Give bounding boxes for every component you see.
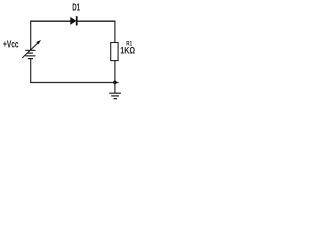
wire: battery - terminal down to bottom-left corner: [30, 59, 32, 83]
battery V1 (variable source): [25, 50, 35, 58]
svg-text:D1: D1: [72, 3, 80, 14]
wire: top rail, +Vcc corner to diode anode: [30, 20, 71, 22]
wire: top-right corner down to resistor pin 1: [114, 21, 116, 43]
diode D1: [70, 16, 77, 25]
junction node: [113, 81, 117, 85]
wire: left vertical, top corner to battery + terminal: [30, 21, 32, 51]
ground: [109, 93, 121, 99]
svg-text:+Vcc: +Vcc: [3, 40, 19, 51]
wire: diode cathode to top-right corner: [77, 20, 115, 22]
wire: bottom rail: [30, 82, 118, 84]
svg-text:1KΩ: 1KΩ: [120, 45, 135, 56]
resistor R1 body: [111, 43, 118, 61]
wire: ground stub: [114, 82, 116, 93]
variable-source arrow: [22, 40, 41, 58]
wire: resistor pin 2 down to bottom rail: [114, 61, 116, 83]
